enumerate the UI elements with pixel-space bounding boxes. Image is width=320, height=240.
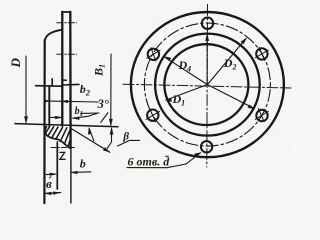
wire: b right part (71, 171, 91, 174)
wire: pipe left wall (upper) (61, 12, 63, 126)
wire: flange inner wall (48, 86, 50, 126)
wire: flange disc top line (36, 85, 63, 88)
wire: b left part (46, 173, 55, 176)
wire: D1 radius arrow (166, 85, 207, 100)
bolt circle (dash-dot) (144, 23, 270, 146)
wire: D4 radius arrow (165, 57, 208, 84)
wire: v dimension line (45, 192, 61, 195)
wire: b1 right arrow (73, 113, 97, 118)
wire: flange outer wall (43, 40, 45, 203)
bore circle (164, 44, 248, 125)
wire: holes leader line (127, 153, 200, 168)
wire: beta slant line (72, 129, 110, 153)
wire: disc bottom / datum line (15, 124, 118, 127)
node: horizontal centerline (123, 84, 291, 88)
wire: D4 opposite arrow (207, 85, 254, 109)
wire: b2 dimension line (44, 101, 98, 102)
node: axis tick below flare (51, 147, 75, 149)
node: break mark z (60, 152, 65, 159)
node: hole upper-right (255, 47, 268, 60)
wire: b1 shelf line (81, 112, 100, 114)
wire: b1 left arrow (51, 116, 61, 118)
wire: D dimension line (25, 56, 27, 122)
wire: B1 dimension line (110, 54, 112, 125)
wire: up arrow right (107, 129, 111, 149)
flare (hatched pipe end) outline (45, 127, 70, 149)
raised face circle (155, 34, 260, 136)
wire: pipe top closing line (62, 11, 71, 13)
wire: beta shelf (118, 140, 140, 146)
node: hole top (202, 18, 213, 29)
node: hole bottom (201, 141, 212, 152)
wire: disc top line right part (62, 83, 79, 86)
wire: leader diagonal below 3deg (101, 113, 108, 123)
node: center tick upper (57, 22, 77, 24)
node: hole upper-left (147, 48, 160, 61)
hatching of flare (46, 127, 70, 147)
wire: pipe right wall extension to bottom (70, 148, 72, 203)
wire: D2 radius arrow (207, 39, 246, 85)
wire: up arrow left (89, 129, 94, 141)
wire: flange hub top curve (45, 30, 62, 41)
wire: tube end tick (62, 79, 66, 81)
node: hole lower-right (255, 109, 268, 122)
wire: pipe right wall (full height) (69, 12, 72, 148)
node: vertical centerline (206, 5, 209, 168)
node: hole lower-left (146, 109, 160, 122)
wire: vertical radius arrow (206, 35, 208, 85)
wire: pipe wall below flare (56, 142, 58, 189)
node: center tick lower (57, 53, 77, 55)
wire: hub step stub (51, 79, 53, 86)
outer circle (131, 12, 284, 157)
